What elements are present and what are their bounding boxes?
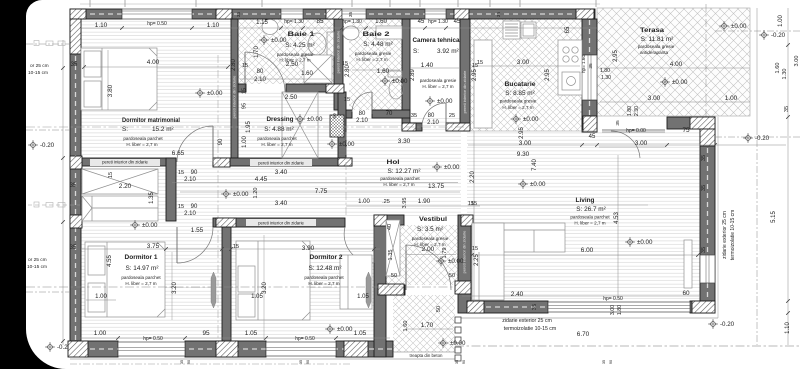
svg-text:15: 15 xyxy=(342,61,348,67)
svg-text:S: 8.85 m²: S: 8.85 m² xyxy=(505,90,534,97)
svg-text:H. liber = 2,7 m: H. liber = 2,7 m xyxy=(502,105,533,110)
bottom wall dash xyxy=(72,348,392,350)
svg-text:1.30: 1.30 xyxy=(601,75,611,81)
svg-text:pardoseala gresie: pardoseala gresie xyxy=(638,44,675,49)
svg-text:2.95: 2.95 xyxy=(519,127,525,139)
svg-text:1.40: 1.40 xyxy=(421,62,434,69)
floor Dormitor matrimonial parquet xyxy=(81,19,231,158)
wall: vestibul bottom wall xyxy=(380,285,405,295)
svg-text:±0.00: ±0.00 xyxy=(207,90,223,97)
wall: vestibul right wall xyxy=(458,215,471,313)
door: vestibul entrance door xyxy=(405,245,407,290)
svg-text:Dormitor 1: Dormitor 1 xyxy=(125,254,158,261)
svg-text:90: 90 xyxy=(218,138,224,145)
level marker dorm1 top xyxy=(130,220,140,230)
wall: baie1-baie2 wall xyxy=(334,19,343,110)
door: baie1 door xyxy=(244,52,246,92)
svg-text:2.95: 2.95 xyxy=(472,69,478,81)
svg-text:pardoseala parchet: pardoseala parchet xyxy=(304,275,344,280)
sofa living xyxy=(472,223,565,300)
axis left small boxes xyxy=(28,204,80,206)
svg-text:pardoseala parchet: pardoseala parchet xyxy=(121,275,161,280)
svg-text:1.05: 1.05 xyxy=(357,294,369,300)
svg-text:hp= 0.50: hp= 0.50 xyxy=(143,336,163,342)
svg-text:4.53: 4.53 xyxy=(614,212,620,224)
svg-text:35: 35 xyxy=(701,185,707,191)
svg-text:35: 35 xyxy=(496,12,502,18)
dim line right margin2 xyxy=(756,8,758,135)
svg-text:6.00: 6.00 xyxy=(581,247,594,254)
svg-text:90: 90 xyxy=(187,360,191,364)
svg-text:2.10: 2.10 xyxy=(184,177,196,183)
hatch top-left corner v xyxy=(70,19,81,54)
wall annotations xyxy=(90,159,160,166)
svg-text:Terasa: Terasa xyxy=(640,27,664,34)
wall: bottom wall right pier xyxy=(336,341,393,357)
svg-text:1.80: 1.80 xyxy=(600,68,610,74)
terasa dim line 3.00 xyxy=(600,101,750,103)
svg-text:.25: .25 xyxy=(382,199,390,205)
door: dressing door xyxy=(212,126,214,162)
svg-text:70: 70 xyxy=(386,111,393,117)
svg-text:15.2 m²: 15.2 m² xyxy=(152,126,174,133)
wall: vestibul top wall xyxy=(386,215,404,225)
svg-text:35: 35 xyxy=(588,63,594,69)
svg-text:2.89: 2.89 xyxy=(410,69,416,81)
svg-text:2.40: 2.40 xyxy=(511,291,524,298)
dim kitchen 3.00 xyxy=(472,65,580,67)
svg-text:2.20: 2.20 xyxy=(119,183,132,190)
svg-text:1.15: 1.15 xyxy=(256,20,268,26)
svg-text:pardoseala gresie: pardoseala gresie xyxy=(412,236,449,241)
svg-text:H. liber = 2,7 m: H. liber = 2,7 m xyxy=(383,182,414,187)
window: dormitor matrimonial top xyxy=(122,9,192,19)
footing line bottom right xyxy=(460,317,718,319)
hatch kitchen wall end xyxy=(583,116,597,132)
svg-text:Camera tehnica: Camera tehnica xyxy=(413,37,460,44)
svg-text:7.75: 7.75 xyxy=(315,188,328,195)
svg-text:S: 11.81 m²: S: 11.81 m² xyxy=(641,36,674,43)
svg-text:-0.20: -0.20 xyxy=(720,321,735,328)
dim line living v xyxy=(473,131,475,301)
svg-text:hp= 0.00: hp= 0.00 xyxy=(626,128,646,134)
baie2 washing machine xyxy=(376,26,402,39)
porch edge xyxy=(393,351,455,353)
svg-text:3.40: 3.40 xyxy=(275,200,288,207)
svg-text:45: 45 xyxy=(454,19,461,25)
baie2 sink xyxy=(343,26,359,40)
svg-text:±0.00: ±0.00 xyxy=(731,23,747,30)
svg-text:15: 15 xyxy=(468,201,474,207)
svg-text:35: 35 xyxy=(532,304,538,310)
svg-text:-0.20: -0.20 xyxy=(771,32,786,39)
svg-text:1.35: 1.35 xyxy=(149,192,155,204)
svg-text:9.30: 9.30 xyxy=(517,151,530,158)
svg-text:1.00: 1.00 xyxy=(358,199,370,205)
svg-text:15: 15 xyxy=(242,88,248,94)
wall: dressing right wall xyxy=(338,92,346,158)
baie1 sink xyxy=(262,20,278,35)
window: living right xyxy=(700,255,715,283)
hatch top wall 1 xyxy=(216,9,232,19)
ticks: dm xyxy=(82,65,230,69)
floor Hol parquet xyxy=(176,118,461,218)
ticks: bottom dims xyxy=(116,336,338,340)
hatch camera tehnica corner xyxy=(446,123,470,131)
hol living line xyxy=(468,204,648,206)
svg-text:1.35: 1.35 xyxy=(388,250,394,261)
dim living 3.00a xyxy=(599,146,665,148)
axis spindle symbol left xyxy=(211,272,216,308)
level marker right bottom -0.20 xyxy=(708,319,718,329)
top margin dim line xyxy=(80,3,600,5)
svg-text:35: 35 xyxy=(180,360,184,364)
svg-text:3.75: 3.75 xyxy=(147,243,160,250)
svg-text:3.30: 3.30 xyxy=(398,138,411,145)
svg-text:2.50: 2.50 xyxy=(285,94,298,101)
hatch top wall 3 xyxy=(454,9,469,19)
hatch dressing door xyxy=(213,158,230,167)
window: kitchen west window xyxy=(582,55,597,100)
hatch bottom wall divider xyxy=(216,341,238,357)
baie1 wc xyxy=(308,32,334,56)
dim baie1 2.50 xyxy=(240,78,332,80)
svg-text:35: 35 xyxy=(602,360,606,364)
door: camera tehnica door xyxy=(445,103,447,127)
svg-text:or 25 cm: or 25 cm xyxy=(28,257,47,263)
svg-text:pardoseala parchet: pardoseala parchet xyxy=(570,215,610,220)
axis right v xyxy=(756,140,758,345)
svg-text:2.10: 2.10 xyxy=(356,118,368,124)
wall: camera tehnica left wall xyxy=(402,19,410,123)
svg-text:-0.2: -0.2 xyxy=(57,344,68,351)
svg-text:1.30: 1.30 xyxy=(782,69,788,80)
svg-text:H. liber = 2,7 m: H. liber = 2,7 m xyxy=(308,281,339,286)
svg-text:85: 85 xyxy=(316,18,324,25)
svg-text:1.90: 1.90 xyxy=(418,198,431,205)
svg-text:2.25: 2.25 xyxy=(474,254,480,266)
axis mid y127 xyxy=(26,126,465,128)
svg-text:±0.00: ±0.00 xyxy=(530,181,546,188)
living bottom dash xyxy=(468,306,714,308)
hatch living bottom L xyxy=(467,301,484,313)
svg-text:3.80: 3.80 xyxy=(107,84,114,97)
hatch top wall 4 xyxy=(576,9,594,19)
svg-text:2.10: 2.10 xyxy=(427,120,439,126)
svg-text:1.70: 1.70 xyxy=(421,322,434,329)
level marker corridor xyxy=(221,189,231,199)
kitchen wall dash xyxy=(589,20,591,131)
svg-text:35: 35 xyxy=(236,12,242,18)
svg-text:75: 75 xyxy=(682,127,690,134)
hatch top-left corner h xyxy=(70,9,86,19)
door: terasa door xyxy=(602,129,665,131)
svg-text:6.70: 6.70 xyxy=(577,331,590,338)
svg-text:2.10: 2.10 xyxy=(254,77,266,83)
wall: dressing bottom wall a xyxy=(81,158,176,166)
svg-text:35: 35 xyxy=(784,106,790,112)
svg-text:3.00: 3.00 xyxy=(794,56,800,67)
dim dorm2 x264 xyxy=(263,235,265,340)
svg-text:1.60: 1.60 xyxy=(403,321,409,332)
wall: bottom wall mid pier xyxy=(185,341,266,357)
ventilation shaft xyxy=(330,115,344,137)
svg-text:60: 60 xyxy=(682,290,690,297)
axis bottom footer xyxy=(70,363,350,365)
svg-text:1.95: 1.95 xyxy=(246,121,252,133)
hatch hol wall divider xyxy=(216,218,236,227)
svg-text:15: 15 xyxy=(242,63,248,69)
svg-text:15: 15 xyxy=(178,170,184,176)
wall: camera tehnica right wall xyxy=(460,19,470,131)
ticks: right margin dims xyxy=(786,43,790,315)
svg-text:3.20: 3.20 xyxy=(172,282,178,294)
level marker left -0.20 xyxy=(28,140,38,150)
svg-text:50: 50 xyxy=(449,273,455,279)
floor Vestibul gresie xyxy=(386,225,458,285)
svg-text:1.00: 1.00 xyxy=(94,330,107,337)
closet dormitor1 upper (X box) xyxy=(82,169,158,194)
terasa door second line xyxy=(602,131,665,133)
svg-text:90: 90 xyxy=(191,170,198,176)
svg-text:45: 45 xyxy=(418,19,425,25)
svg-text:pardoseala gresie: pardoseala gresie xyxy=(420,78,457,83)
svg-text:6.65: 6.65 xyxy=(172,150,185,157)
svg-text:H. liber = 2,7 m: H. liber = 2,7 m xyxy=(125,281,156,286)
svg-text:1.60: 1.60 xyxy=(775,63,781,74)
svg-text:pereti interior din zidarie: pereti interior din zidarie xyxy=(102,160,148,165)
wall: kitchen-terasa wall upper xyxy=(582,19,597,55)
baie2 wc xyxy=(388,71,403,99)
svg-text:15: 15 xyxy=(178,204,184,210)
dim dorm1 x172 xyxy=(171,252,173,320)
level marker dressing east xyxy=(327,139,337,149)
dim line top xyxy=(82,27,598,29)
window: baie1 top xyxy=(281,9,303,19)
level marker terasa xyxy=(719,21,729,31)
bed dormitor 1 xyxy=(85,242,165,317)
svg-text:3.40: 3.40 xyxy=(275,169,288,176)
svg-text:15: 15 xyxy=(472,246,478,252)
level marker bottom dorm2 xyxy=(325,324,335,334)
svg-text:2.20: 2.20 xyxy=(470,171,476,183)
svg-text:4.45: 4.45 xyxy=(255,176,268,183)
hatch living right wall top xyxy=(700,129,715,146)
ticks: top dims xyxy=(120,26,448,30)
svg-text:15: 15 xyxy=(233,244,239,250)
svg-text:1.60: 1.60 xyxy=(377,68,390,75)
level marker camera tehnica xyxy=(425,96,435,106)
svg-text:2.00: 2.00 xyxy=(422,246,435,253)
hatch bottom-left corner xyxy=(68,341,88,357)
dim cam tehnica 1.40 xyxy=(410,67,459,69)
kitchen fridge shelves xyxy=(503,21,536,39)
svg-text:pardoseala gresie: pardoseala gresie xyxy=(277,52,314,57)
wall: hol-dorm wall xyxy=(213,218,345,227)
wall: dressing bottom wall b xyxy=(213,158,352,166)
svg-text:4.00: 4.00 xyxy=(147,59,160,66)
svg-text:Bucatarie: Bucatarie xyxy=(505,81,536,88)
wall: left exterior wall xyxy=(70,19,81,341)
svg-text:7.40: 7.40 xyxy=(532,159,538,171)
svg-text:pardoseala parchet: pardoseala parchet xyxy=(257,136,297,141)
svg-text:3.90: 3.90 xyxy=(302,245,315,252)
svg-text:10-15 cm: 10-15 cm xyxy=(28,70,48,76)
right wall outer line xyxy=(717,117,719,318)
wall: living right wall xyxy=(700,129,715,313)
svg-text:95: 95 xyxy=(202,330,210,337)
axis right h1 xyxy=(715,136,800,138)
terasa dim line 4.00 xyxy=(600,67,750,69)
wall: top wall pier E xyxy=(446,9,595,19)
dim line hol2 xyxy=(180,191,460,193)
closet vestibul (X box) xyxy=(386,220,400,276)
tv stand living xyxy=(684,240,692,288)
dim vest 2.00 xyxy=(406,254,456,256)
floor Baie 1 gresie xyxy=(238,19,334,84)
dim hol row2 line xyxy=(172,182,458,184)
hatch baie1 wall end xyxy=(326,84,344,93)
svg-text:Dormitor matrimonial: Dormitor matrimonial xyxy=(122,117,180,124)
svg-text:hp= 1.30: hp= 1.30 xyxy=(342,19,362,25)
svg-text:H. liber = 2,7 m: H. liber = 2,7 m xyxy=(261,142,292,147)
svg-text:1.05: 1.05 xyxy=(354,330,367,337)
svg-text:90: 90 xyxy=(306,360,310,364)
svg-text:±0.00: ±0.00 xyxy=(637,239,653,246)
window: baie2 top xyxy=(342,9,366,19)
floor entry porch gresie xyxy=(393,295,455,352)
svg-text:25: 25 xyxy=(449,113,455,119)
wall: top wall pier D xyxy=(366,9,425,19)
level marker living top xyxy=(518,179,528,189)
level marker living xyxy=(625,237,635,247)
svg-text:pereti interior din zidarie: pereti interior din zidarie xyxy=(462,70,467,113)
dim line living v2 xyxy=(617,155,619,298)
dim line living bottom xyxy=(462,295,700,297)
svg-text:13.75: 13.75 xyxy=(428,183,444,190)
svg-text:S: 12.27 m²: S: 12.27 m² xyxy=(387,168,420,175)
svg-text:1.00: 1.00 xyxy=(725,95,738,102)
svg-text:1.05: 1.05 xyxy=(245,330,258,337)
floor Living parquet xyxy=(467,131,700,301)
top wall dash xyxy=(72,13,594,15)
svg-text:Baie 2: Baie 2 xyxy=(363,31,390,38)
svg-text:S: 3.5 m²: S: 3.5 m² xyxy=(417,226,443,233)
svg-text:1.79: 1.79 xyxy=(442,248,448,259)
svg-text:1.10: 1.10 xyxy=(785,322,791,334)
svg-text:4.55: 4.55 xyxy=(107,255,113,267)
window: dormitor2 bottom xyxy=(266,342,336,356)
svg-text:H. liber = 2,7 m: H. liber = 2,7 m xyxy=(356,57,387,62)
bed dormitor matrimonial xyxy=(81,48,157,110)
svg-text:35: 35 xyxy=(411,113,417,119)
wall: living top-right wall xyxy=(667,117,715,129)
svg-text:45: 45 xyxy=(589,134,596,140)
svg-text:Hol: Hol xyxy=(387,159,400,166)
svg-text:15: 15 xyxy=(108,172,114,178)
wall: baie1 bottom wall b xyxy=(286,84,330,92)
level marker hol xyxy=(432,162,442,172)
left margin small squares row2 xyxy=(34,202,65,207)
wall: baie2 bottom wall b xyxy=(372,110,410,118)
axis hol x346 xyxy=(345,132,347,216)
svg-text:2.10: 2.10 xyxy=(184,211,196,217)
hatch living top-right xyxy=(690,117,715,129)
svg-text:1.60: 1.60 xyxy=(301,71,313,77)
svg-text:3.92 m²: 3.92 m² xyxy=(437,48,459,55)
floor Hol corridor parquet xyxy=(176,166,374,218)
dim line bedrooms xyxy=(82,248,380,250)
svg-text:3.20: 3.20 xyxy=(262,282,268,294)
axis top-left xyxy=(26,43,70,45)
svg-text:40: 40 xyxy=(387,224,393,230)
dim baie2 1.60 xyxy=(352,69,400,71)
level marker baie2 east xyxy=(380,76,390,86)
svg-text:1.70: 1.70 xyxy=(254,46,260,58)
wardrobe dormitor2 xyxy=(340,255,372,309)
svg-text:1.05: 1.05 xyxy=(251,294,263,300)
level marker baie1 xyxy=(259,35,269,45)
svg-text:15: 15 xyxy=(344,97,350,103)
floor Dormitor 1 parquet xyxy=(81,166,222,341)
wardrobe dressing (X box) xyxy=(282,92,318,158)
svg-text:90: 90 xyxy=(462,360,466,364)
svg-text:S: 4.48 m²: S: 4.48 m² xyxy=(363,41,392,48)
svg-text:pereti interior din zidarie: pereti interior din zidarie xyxy=(462,230,467,273)
svg-text:termoizolatie 10-15 cm: termoizolatie 10-15 cm xyxy=(730,210,736,261)
level marker right top -0.20 xyxy=(759,30,769,40)
level marker bottom-left -0.2 xyxy=(45,342,55,352)
svg-text:H. liber = 2,7 m: H. liber = 2,7 m xyxy=(422,84,453,89)
svg-text:hp= 0.50: hp= 0.50 xyxy=(603,296,623,302)
svg-text:Dressing: Dressing xyxy=(267,116,294,123)
svg-text:1.60: 1.60 xyxy=(375,19,387,25)
right wall dash xyxy=(707,130,709,312)
svg-text:±0.00: ±0.00 xyxy=(337,326,353,333)
svg-text:or 25 cm: or 25 cm xyxy=(30,63,49,69)
posts row at entry xyxy=(455,317,461,361)
dim 3.80 vert xyxy=(107,50,109,110)
svg-text:50: 50 xyxy=(391,273,397,279)
svg-text:35: 35 xyxy=(70,245,77,251)
svg-text:1.20: 1.20 xyxy=(253,188,259,199)
svg-text:±0.00: ±0.00 xyxy=(339,141,355,148)
hatch left wall j2 xyxy=(70,215,82,228)
footing line bottom xyxy=(70,358,460,360)
svg-text:termoizolatie 10-15 cm: termoizolatie 10-15 cm xyxy=(504,326,556,332)
svg-text:50: 50 xyxy=(332,113,338,119)
svg-text:10-15 cm: 10-15 cm xyxy=(27,264,47,270)
axis left mid xyxy=(26,129,70,131)
ticks: bedroom dims xyxy=(164,247,376,251)
floor Dormitor 2 parquet xyxy=(231,227,374,341)
svg-text:hp= 1.30: hp= 1.30 xyxy=(284,19,304,25)
kitchen counter left xyxy=(474,40,492,128)
svg-text:±0.00: ±0.00 xyxy=(307,116,323,123)
wall: dorm divider wall xyxy=(222,227,231,341)
dim dorm1 1.00 xyxy=(86,299,116,301)
svg-text:±0.00: ±0.00 xyxy=(142,222,158,229)
hatch dressing wall end xyxy=(338,158,352,166)
svg-text:3.00: 3.00 xyxy=(635,140,648,147)
svg-text:H. liber = 2,7 m: H. liber = 2,7 m xyxy=(126,142,157,147)
left margin small squares row1 xyxy=(34,41,65,46)
door: dormitor2 door xyxy=(373,227,375,263)
wall: camera tehnica bottom wall w xyxy=(402,123,422,131)
svg-text:S: 14.97 m²: S: 14.97 m² xyxy=(125,265,158,272)
wall: top wall pier B xyxy=(192,9,281,19)
svg-text:2.95: 2.95 xyxy=(545,69,551,81)
